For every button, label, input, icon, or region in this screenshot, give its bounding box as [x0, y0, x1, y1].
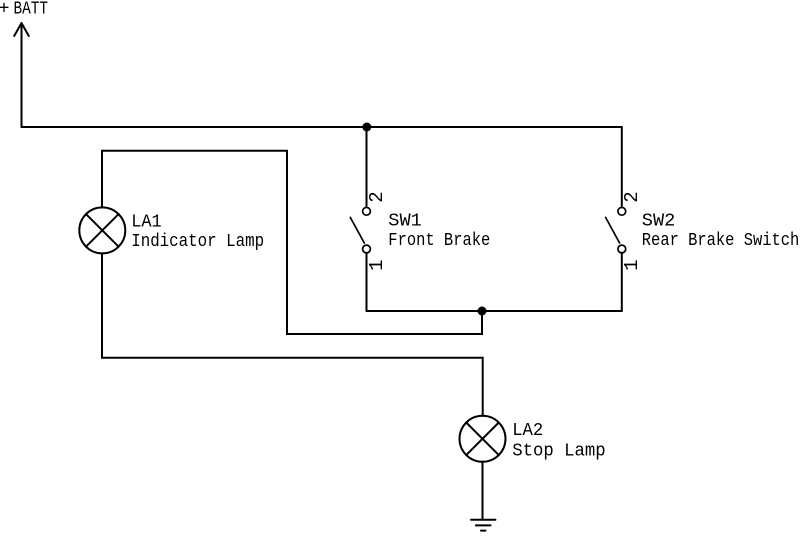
- svg-text:2: 2: [366, 191, 388, 202]
- svg-text:Front Brake: Front Brake: [388, 231, 490, 251]
- wire: LA2 bottom to ground: [482, 462, 484, 520]
- wire: bottom rail SW1 to SW2: [367, 310, 622, 312]
- svg-text:Indicator Lamp: Indicator Lamp: [131, 232, 264, 252]
- wire: SW2 pin 2 vertical: [621, 127, 623, 206]
- svg-text:BATT: BATT: [14, 0, 49, 19]
- svg-text:+: +: [0, 0, 10, 19]
- switch SW2 body: [606, 207, 626, 253]
- wire: SW1 pin 2 vertical: [366, 127, 368, 206]
- svg-text:LA1: LA1: [131, 213, 162, 233]
- wire: top rail from +BATT to SW2: [22, 126, 622, 128]
- svg-text:1: 1: [366, 259, 388, 270]
- svg-text:LA2: LA2: [512, 421, 543, 441]
- svg-text:2: 2: [621, 191, 643, 202]
- ground symbol: [471, 520, 495, 531]
- wire: LA1 bottom to LA2 top: [102, 253, 483, 415]
- svg-text:1: 1: [621, 259, 643, 270]
- junction dot at top rail / SW1: [362, 123, 371, 132]
- svg-text:SW1: SW1: [388, 211, 422, 231]
- lamp LA1 body: [79, 207, 125, 253]
- svg-text:SW2: SW2: [642, 211, 676, 231]
- power flag +BATT arrow: [14, 23, 29, 127]
- svg-text:Stop Lamp: Stop Lamp: [512, 442, 606, 462]
- switch SW1 body: [350, 207, 370, 253]
- lamp LA2 body: [460, 416, 506, 462]
- wire: SW2 pin 1 vertical: [621, 253, 623, 311]
- junction dot at bottom rail / stop lamp branch: [478, 307, 487, 316]
- wire: SW1 pin 1 vertical: [366, 253, 368, 311]
- wire: LA1 top to upper loop: [102, 151, 482, 334]
- svg-text:Rear Brake Switch: Rear Brake Switch: [642, 231, 800, 251]
